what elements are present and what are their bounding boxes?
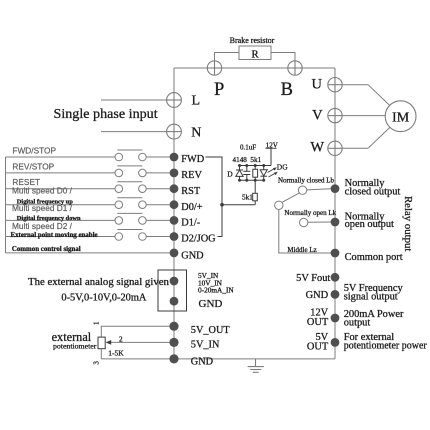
wire brake resistor bypass left <box>215 53 240 61</box>
svg-text:5V_IN: 5V_IN <box>191 340 220 351</box>
svg-text:potentiometer: potentiometer <box>53 342 97 351</box>
svg-text:Normally open Lk: Normally open Lk <box>284 209 336 217</box>
svg-text:W: W <box>310 139 324 155</box>
node D2/JOG <box>170 232 179 241</box>
svg-text:open output: open output <box>345 219 394 230</box>
svg-text:OUT: OUT <box>307 317 329 328</box>
wiper arrow <box>106 340 112 345</box>
node 5V OUT <box>331 338 340 347</box>
terminal V <box>328 108 342 122</box>
terminal U <box>328 78 342 92</box>
svg-text:Common control signal: Common control signal <box>12 246 81 253</box>
svg-text:Relay output: Relay output <box>402 196 414 251</box>
node FWD <box>170 153 179 162</box>
svg-text:5k1: 5k1 <box>242 193 253 201</box>
svg-text:Normally closed Lb: Normally closed Lb <box>278 177 334 185</box>
svg-text:closed output: closed output <box>345 186 401 197</box>
node 12V OUT <box>331 314 340 323</box>
analog input box <box>158 270 187 311</box>
svg-text:IM: IM <box>392 110 410 125</box>
svg-text:P: P <box>214 80 224 100</box>
potentiometer body 1-5K <box>98 337 105 349</box>
svg-text:signal output: signal output <box>344 291 398 302</box>
svg-text:Common port: Common port <box>345 252 403 263</box>
LED light arrows <box>268 167 278 177</box>
svg-text:Multi speed D2 /: Multi speed D2 / <box>12 221 73 231</box>
node D0/+ <box>170 200 179 209</box>
resistor 5k1 upper <box>253 166 258 181</box>
svg-text:D: D <box>227 170 233 179</box>
diode D 4148 <box>236 166 243 181</box>
terminal B <box>288 61 302 75</box>
svg-text:0.1uF: 0.1uF <box>240 143 256 151</box>
wire common control signal <box>6 252 170 254</box>
svg-text:RST: RST <box>181 186 201 197</box>
svg-text:B: B <box>281 80 293 100</box>
svg-text:1: 1 <box>92 321 100 325</box>
svg-text:Brake resistor: Brake resistor <box>230 36 275 45</box>
svg-text:5k1: 5k1 <box>250 156 261 164</box>
wire Lk to output <box>308 221 331 223</box>
svg-text:Middle Lz: Middle Lz <box>287 246 316 254</box>
relay contact normally closed Lb <box>298 186 306 194</box>
svg-text:External point moving enable: External point moving enable <box>11 232 98 239</box>
node normally open output <box>331 218 340 227</box>
wire Lb to output <box>307 189 331 190</box>
wire bottom rail of diode network <box>240 179 264 181</box>
switch multi speed D1 <box>6 213 170 224</box>
svg-text:L: L <box>192 94 201 109</box>
wire left main vertical line <box>173 68 175 359</box>
wire top rail of diode network <box>240 165 272 167</box>
svg-text:The external analog signal giv: The external analog signal given <box>28 276 170 288</box>
node 5V Fout <box>331 273 340 282</box>
wire right main vertical line <box>334 68 336 359</box>
wire input L <box>101 99 167 101</box>
wire potentiometer top <box>101 326 169 337</box>
junction on FWD wire <box>220 203 224 207</box>
node analog gnd <box>170 297 179 306</box>
relay contact normally open Lk <box>300 218 308 226</box>
LED DG <box>260 166 267 181</box>
switch REV/STOP <box>6 166 170 177</box>
relay armature <box>282 193 300 203</box>
svg-text:1-5K: 1-5K <box>108 349 124 358</box>
wire top bus P-B <box>174 67 335 69</box>
switch multi speed D0 <box>6 198 170 209</box>
wire FWD to DG circuit <box>206 157 223 237</box>
svg-text:V: V <box>312 107 323 123</box>
node 5V_IN <box>169 338 178 347</box>
svg-text:0-20mA_IN: 0-20mA_IN <box>198 286 234 295</box>
svg-text:Multi speed D1 /: Multi speed D1 / <box>12 203 73 213</box>
svg-text:Single phase input: Single phase input <box>54 106 158 122</box>
svg-text:D0/+: D0/+ <box>181 202 202 213</box>
wire resistor to bottom rail <box>254 180 256 193</box>
svg-text:U: U <box>312 77 323 93</box>
svg-text:potentiometer power: potentiometer power <box>344 340 428 351</box>
svg-text:GND: GND <box>191 356 214 367</box>
wire potentiometer bottom <box>100 349 102 359</box>
wire U to motor <box>342 85 390 106</box>
svg-text:0-5V,0-10V,0-20mA: 0-5V,0-10V,0-20mA <box>61 293 147 304</box>
node REV <box>170 169 179 178</box>
svg-text:Multi speed D0 /: Multi speed D0 / <box>12 186 73 196</box>
node RST <box>170 184 179 193</box>
svg-text:2: 2 <box>119 335 123 343</box>
wire junction to resistor chain <box>222 204 255 206</box>
svg-text:DG: DG <box>277 162 288 171</box>
node analog in <box>170 277 179 286</box>
terminal W <box>328 141 342 155</box>
svg-text:GND: GND <box>181 250 204 261</box>
node common port <box>331 249 340 258</box>
svg-text:output: output <box>344 317 371 328</box>
switch FWD/STOP <box>6 150 170 161</box>
svg-text:R: R <box>251 49 259 61</box>
wire bottom GND bus <box>101 358 335 360</box>
terminal L <box>167 93 182 108</box>
terminal N <box>167 124 182 139</box>
wire resistor chain vertical <box>254 201 256 205</box>
svg-text:5V Fout: 5V Fout <box>296 273 330 284</box>
svg-text:D1/-: D1/- <box>181 218 200 229</box>
svg-text:REV: REV <box>181 170 202 181</box>
svg-text:N: N <box>191 125 201 140</box>
svg-text:REV/STOP: REV/STOP <box>12 162 54 172</box>
svg-text:FWD/STOP: FWD/STOP <box>12 145 56 155</box>
svg-text:5V_OUT: 5V_OUT <box>191 325 231 336</box>
terminal P <box>207 61 221 75</box>
switch multi speed D2 <box>6 230 170 241</box>
node normally closed output <box>331 184 340 193</box>
wire common contact to common port <box>279 210 331 254</box>
wire left control bus <box>5 157 7 253</box>
switch RESET <box>6 182 170 193</box>
node GND control <box>170 249 179 258</box>
brake resistor R <box>239 46 271 60</box>
resistor 5k1 lower <box>253 193 258 201</box>
svg-text:GND: GND <box>199 298 223 310</box>
ground symbol <box>248 359 264 372</box>
wire V to motor <box>342 115 385 117</box>
junction dots on rails <box>238 164 265 182</box>
node D1/- <box>170 216 179 225</box>
svg-text:OUT: OUT <box>307 341 329 352</box>
wire W to motor <box>342 128 390 149</box>
wire 12V drop <box>270 148 272 165</box>
svg-text:4148: 4148 <box>233 156 248 164</box>
svg-text:FWD: FWD <box>181 154 204 165</box>
motor IM <box>385 101 416 132</box>
wire input N <box>101 131 167 133</box>
svg-text:D2/JOG: D2/JOG <box>181 234 216 245</box>
svg-text:GND: GND <box>306 290 329 301</box>
relay common contact <box>275 201 283 209</box>
capacitor 0.1uF <box>243 166 250 181</box>
svg-text:3: 3 <box>92 361 100 365</box>
wire potentiometer wiper <box>110 341 170 343</box>
node 5V_OUT <box>169 322 178 331</box>
node GND bottom <box>169 354 178 363</box>
node GND frequency <box>331 290 340 299</box>
wire brake resistor bypass right <box>271 53 295 61</box>
